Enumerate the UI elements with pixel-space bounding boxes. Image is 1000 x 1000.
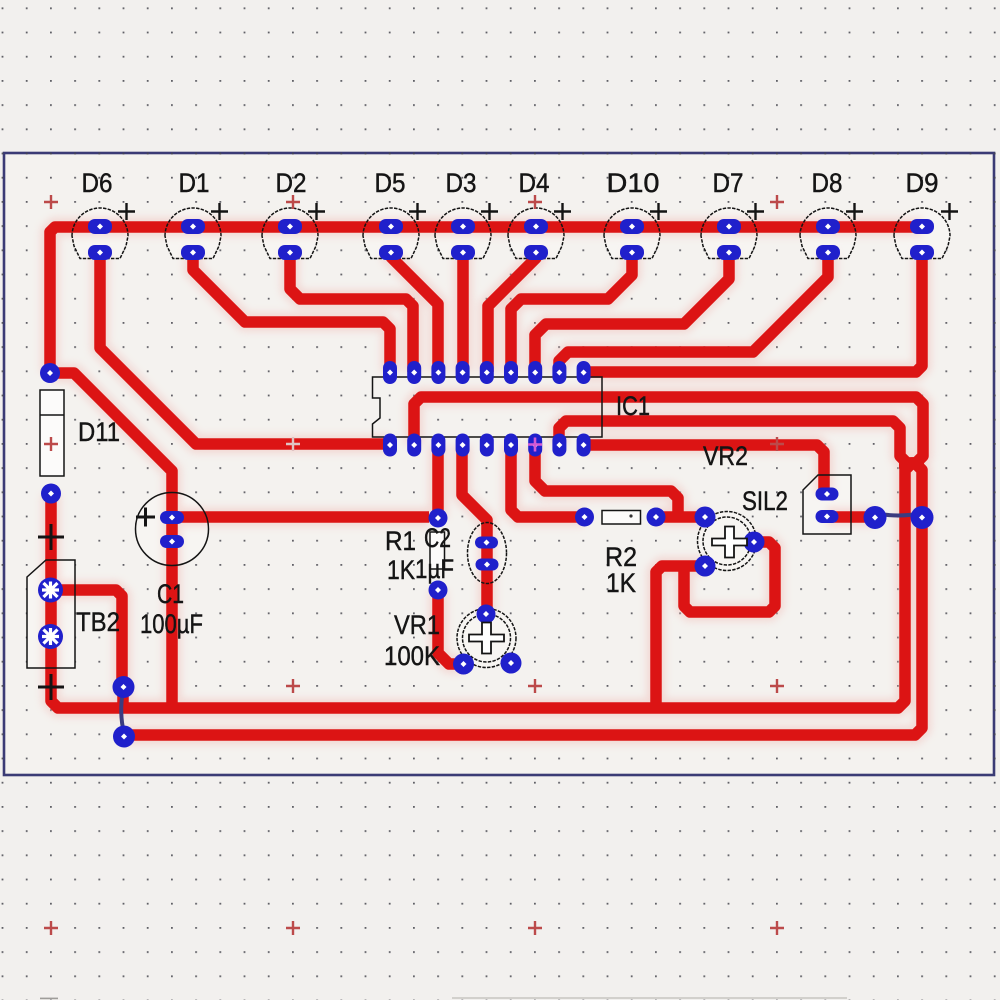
LED polarity plus marks (118, 203, 958, 220)
wire top-layer link left vias (121, 690, 124, 733)
LED D3 outline (435, 208, 491, 259)
trimmer VR1 outline (457, 609, 516, 668)
TB2 origin crosses (38, 524, 64, 550)
svg-text:TB2: TB2 (76, 607, 120, 637)
diode D11 body outline (40, 390, 64, 476)
svg-text:D9: D9 (906, 168, 939, 198)
trace halo glow (50, 227, 924, 735)
svg-text:C2: C2 (424, 523, 451, 553)
svg-text:R1: R1 (385, 526, 416, 556)
LED D5 outline (363, 208, 419, 259)
pads TB2 (38, 578, 63, 603)
pad holes (diamonds) (97, 224, 103, 230)
C1 plus mark (136, 508, 155, 527)
header SIL2 body (803, 475, 851, 534)
svg-text:D5: D5 (375, 168, 406, 198)
pads of LEDs (top/bottom each) (88, 219, 934, 260)
terminal block TB2 outline (27, 560, 75, 668)
fiducial cross on IC pad (magenta) (528, 438, 542, 452)
pads VR1 (477, 605, 496, 624)
big pad left (864, 506, 887, 529)
wire top-layer link big pads (875, 513, 922, 516)
LED D1 outline (165, 208, 221, 259)
svg-text:D11: D11 (78, 417, 120, 447)
svg-text:SIL2: SIL2 (742, 486, 788, 516)
board border (4, 153, 994, 775)
bottom edge artifact lines (452, 997, 847, 999)
pad D11 bottom (41, 484, 61, 504)
VR1 screw slot (469, 623, 504, 654)
svg-text:100µF: 100µF (140, 609, 203, 639)
resistor R2 body (602, 511, 641, 525)
LED D10 outline (604, 208, 660, 259)
svg-text:D8: D8 (812, 168, 843, 198)
pads R2 (575, 508, 594, 527)
capacitor C1 outline (136, 493, 209, 566)
pads C1 (160, 511, 184, 524)
LED D8 outline (800, 208, 856, 259)
pads SIL2 (816, 488, 839, 501)
pads R1 (429, 509, 448, 528)
svg-text:VR2: VR2 (703, 441, 748, 471)
pads of IC1 top row pins 1-9 (383, 361, 591, 384)
svg-text:D1: D1 (179, 168, 210, 198)
LED D4 outline (508, 208, 564, 259)
VR2 screw slot (712, 527, 747, 558)
resistor R1 body (430, 532, 445, 569)
LED D9 outline (894, 208, 950, 259)
pads of IC1 bottom row pins 10-18 (383, 434, 591, 457)
svg-text:D10: D10 (607, 168, 660, 198)
svg-text:D2: D2 (276, 168, 307, 198)
via pad upper left stack (113, 676, 135, 698)
svg-text:D6: D6 (82, 168, 113, 198)
pads VR2 (695, 507, 716, 528)
capacitor C2 outline (468, 523, 507, 584)
svg-text:D3: D3 (446, 168, 477, 198)
svg-text:1K: 1K (387, 555, 415, 585)
svg-text:IC1: IC1 (616, 391, 650, 421)
LED D2 outline (262, 208, 318, 259)
svg-text:1K: 1K (606, 568, 636, 598)
svg-text:D4: D4 (519, 168, 550, 198)
LED D7 outline (701, 208, 757, 259)
pad D11 top (40, 363, 60, 383)
LED D6 outline (72, 208, 128, 259)
trimmer VR2 outline (698, 512, 757, 571)
component body fills (27, 208, 950, 668)
svg-text:100K: 100K (384, 641, 440, 671)
svg-text:D7: D7 (713, 168, 744, 198)
pads C2 (475, 537, 498, 549)
svg-text:C1: C1 (157, 579, 184, 609)
svg-text:1µF: 1µF (415, 554, 454, 584)
via pad lower left stack (113, 726, 135, 748)
IC1 DIP-18 body outline with notch (373, 377, 603, 437)
fiducial grid crosses (44, 195, 58, 209)
svg-text:VR1: VR1 (394, 610, 440, 640)
big pad right (911, 506, 934, 529)
